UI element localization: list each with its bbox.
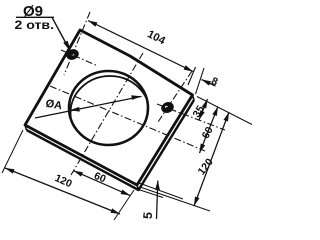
dim 120 right	[194, 112, 229, 206]
hole2 steep centerline / ext for 104 right	[158, 71, 192, 122]
ØA left arrowhead	[70, 107, 80, 112]
leader note fraction bar	[16, 16, 54, 18]
big hole horizontal-ish centerline (extends right as ext for 60 dim)	[50, 86, 205, 151]
svg-text:2 отв.: 2 отв.	[15, 20, 55, 32]
svg-text:Ø9: Ø9	[23, 3, 43, 20]
ext from C shallow (for 120 right bottom arrow and 5-dim)	[140, 187, 210, 211]
hole2 shallow centerline / ext for 35 dim	[157, 104, 225, 130]
plate bottom face edges (thickness)	[27, 100, 195, 190]
ØA right arrowhead	[131, 95, 141, 100]
svg-text:5: 5	[141, 211, 156, 219]
dim 8 line with outside arrow	[202, 80, 216, 87]
ext line at hole 2 axis for dims 104/8	[188, 67, 196, 85]
dim 60 right	[200, 107, 219, 154]
ext line from corner B for dim 8	[196, 68, 205, 94]
big hole steep centerline (extends below as ext for bottom 60 dim)	[71, 53, 143, 175]
right dims: baseline extension of top edge	[197, 97, 252, 125]
dim 5 (thickness)	[139, 183, 183, 199]
ext from C steep	[114, 190, 134, 220]
big hole ellipse	[69, 71, 148, 145]
side closing ticks	[25, 95, 194, 190]
small hole 1 (top-left)	[66, 48, 80, 60]
ØA dimension	[35, 96, 142, 118]
center lines	[50, 12, 225, 175]
hole1 steep centerline / ext for 104	[64, 12, 90, 75]
ext from D steep	[2, 130, 23, 173]
plate top face outline	[25, 30, 193, 185]
leader arrowhead	[63, 41, 71, 52]
dim 35	[199, 99, 208, 120]
dim 104	[88, 21, 193, 72]
small hole 2 (right)	[161, 101, 175, 113]
dim 60 bottom	[74, 171, 131, 196]
hole1 shallow centerline	[61, 50, 98, 66]
leader line to hole 1	[52, 17, 68, 47]
dim 120 bottom	[5, 168, 120, 214]
